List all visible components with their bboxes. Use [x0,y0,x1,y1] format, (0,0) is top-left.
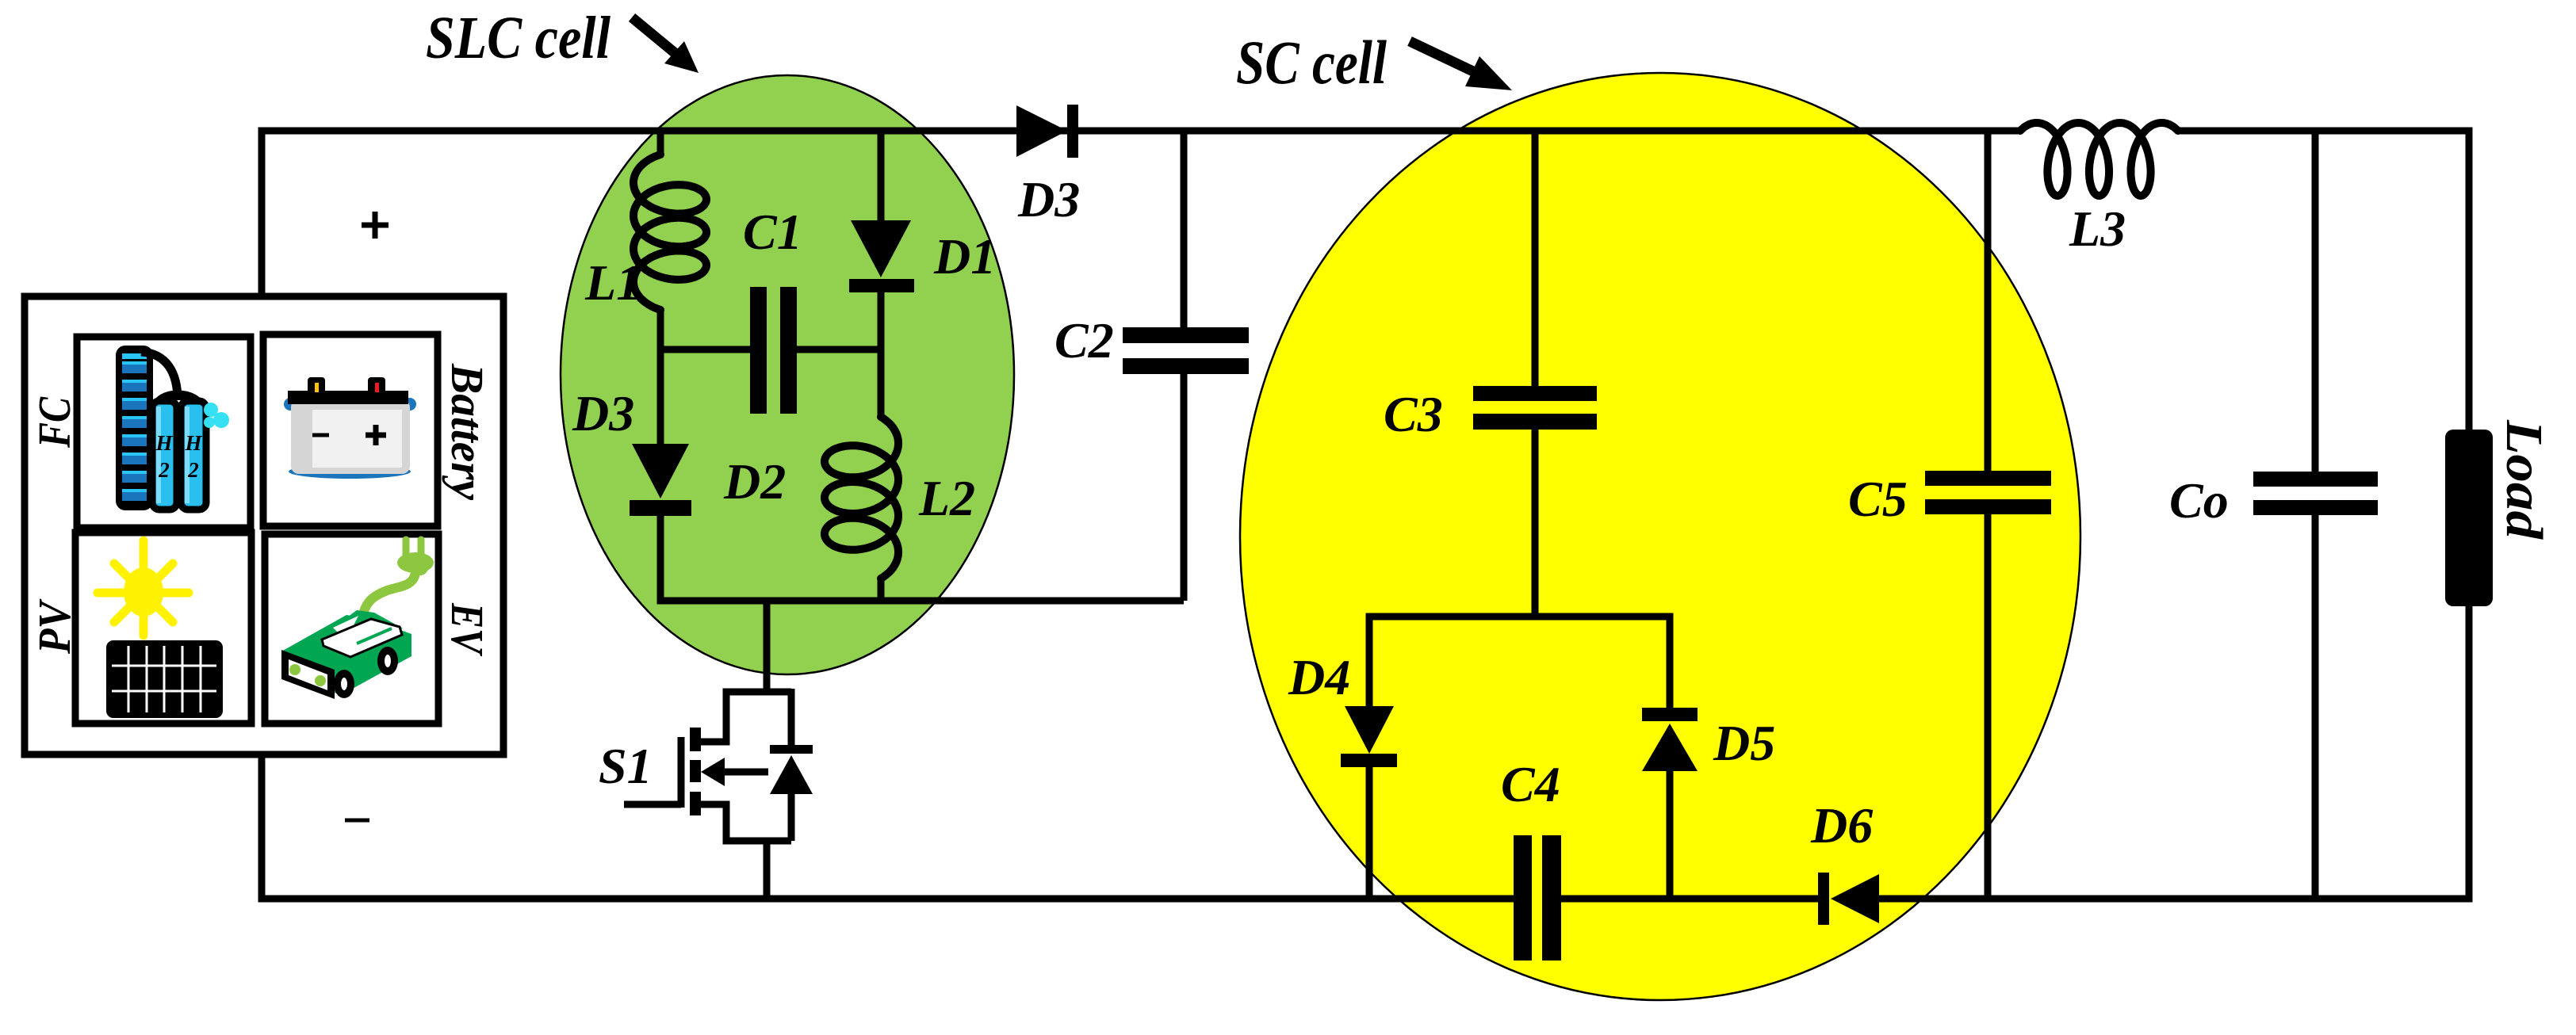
svg-text:C5: C5 [1848,471,1908,527]
diode D5 triangle (pointing up) [1642,724,1698,771]
FC icon: cyan exhaust cloud [204,403,218,417]
capacitor C5 bottom plate [1925,499,2051,514]
capacitor C2 top plate [1123,327,1249,343]
wire: S1 drain from green cell bottom node [764,601,771,692]
wire: D4 cathode to bottom rail [1366,767,1373,899]
capacitor C4 left plate (series in bottom rail) [1514,835,1532,961]
EV icon: plug body [397,552,434,573]
capacitor C4 right plate [1542,835,1561,961]
PV icon: panel grid lines [112,646,216,712]
svg-text:2: 2 [158,458,170,482]
EV icon: headlights [289,664,300,675]
svg-text:SLC cell: SLC cell [426,5,611,71]
diode D2 triangle (left branch, pointing down) [632,444,689,498]
transistor S1 channel bar top [690,728,701,751]
diode D1 triangle (right branch, pointing down) [851,220,911,277]
wire: L2 bottom stub to green-cell bottom wire [878,577,885,601]
transistor S1 source jog + left vertical + bottom line [699,804,791,841]
EV quadrant box [265,534,438,724]
FC icon: fuel-cell stack [116,346,153,510]
svg-text:EV: EV [442,602,493,656]
capacitor C3 top plate [1473,386,1597,401]
transistor S1 substrate arrow line [718,769,768,776]
wire: D1 anode stub from rail [878,131,885,222]
Battery icon: inner panel [312,410,402,468]
wire: S1 body-diode branch top [788,689,795,745]
wire: C1 right lead [797,346,881,353]
svg-text:2: 2 [187,458,199,482]
wire: C3 top lead from rail [1532,131,1539,388]
transistor S1 channel bar bottom [690,792,701,815]
svg-text:FC: FC [29,396,80,449]
transistor S1 MOSFET body: top/left/channel-jog lines [699,692,791,742]
Battery quadrant box [263,334,438,526]
inductor L1 [633,155,706,310]
Battery icon: positive terminal [368,377,385,394]
PV icon: sun disk [124,567,163,617]
FC icon: tank handles [155,395,201,409]
Battery icon: top black band [288,391,408,404]
wire: C1 left lead [660,346,750,353]
EV icon: charging cable [362,571,415,618]
capacitor C2 bottom plate [1123,358,1249,374]
capacitor Co top plate [2253,472,2378,487]
EV icon: windshield band [322,619,402,657]
wire: SC cell horizontal bus D4-D5 [1369,617,1670,620]
wire: D4 anode lead [1366,617,1373,708]
node: + polarity mark (source positive) [362,212,389,239]
svg-text:L2: L2 [918,470,975,526]
EV icon: rear wheel [377,647,398,675]
SLC cell pointer arrow [632,17,678,55]
wire: C2 bottom lead to green-cell bottom wire [1181,372,1188,601]
EV icon: car body [281,615,411,695]
wire: C5 bottom lead to bottom rail [1985,514,1992,899]
FC icon: hydrogen tube from stack to tanks [141,352,178,400]
diode D4 cathode bar [1341,754,1397,767]
inductor L3 [2020,123,2178,196]
wire: S1 source to bottom rail [764,841,771,899]
EV icon: bumper white inset [289,659,327,690]
wire: Co bottom lead to bottom rail [2312,515,2319,899]
diode D4 triangle (pointing down) [1345,706,1394,754]
source box outer frame [25,296,503,754]
wire: C5 top lead from rail [1985,131,1992,472]
diode D6 cathode bar (series in bottom rail) [1818,873,1829,925]
svg-text:L1: L1 [584,254,641,311]
resistor Load (filled rectangle on right wire) [2445,430,2493,606]
diode D1 cathode bar [849,279,914,292]
FC quadrant box [77,337,251,528]
diode D5 cathode bar [1642,708,1698,721]
wire: top rail right of L3 + right wire + bottom rail to D6 anode [1879,131,2469,899]
Battery icon: blue corner dots [284,398,297,411]
inductor L2 [825,417,898,579]
svg-text:SC cell: SC cell [1236,28,1387,97]
yellow SC cell highlight ellipse [1240,73,2080,1000]
svg-text:C4: C4 [1501,756,1560,812]
Battery icon: plus mark [366,425,386,445]
EV icon: windshield green stripe [357,628,392,644]
svg-text:Load: Load [2495,419,2553,540]
svg-text:Battery: Battery [442,363,493,500]
wire: bottom rail between D6 cathode and C4 right plate [1561,896,1824,903]
wire: L1 top stub from rail [657,131,664,156]
svg-text:D6: D6 [1810,797,1873,854]
green SLC cell highlight ellipse [561,75,1014,674]
wire: Co top lead from rail [2312,131,2319,473]
capacitor C5 top plate [1925,471,2051,486]
PV icon: solar panel [106,640,223,718]
EV icon: plug prongs [406,540,421,555]
SC cell pointer arrow [1410,41,1475,72]
svg-text:D3: D3 [1017,171,1080,227]
EV icon: car roof block [327,610,403,641]
wire: C3 bottom lead [1532,430,1539,617]
svg-text:H: H [184,431,202,455]
svg-text:D5: D5 [1713,715,1775,771]
S1 body diode triangle (pointing up) [770,755,813,794]
PV quadrant box [75,533,251,724]
wire: D5 cathode lead from bus [1667,617,1674,708]
wire: bottom rail left of C4 + left wire below source box [262,751,1514,899]
diode D6 triangle (pointing left) [1831,874,1879,923]
EV icon: front wheel [334,670,354,698]
wire: left wire top segment + top rail (to L3) [262,131,2020,300]
wire: D2 cathode down + green-cell bottom wire to C2 [660,516,1184,601]
S1 body diode cathode bar [770,745,813,754]
svg-text:PV: PV [29,598,80,655]
svg-text:D4: D4 [1288,649,1350,705]
Battery icon: negative terminal [308,377,325,394]
capacitor C1 left plate [750,287,767,414]
svg-text:Co: Co [2169,472,2229,529]
transistor S1 substrate arrow head (pointing left) [701,758,725,786]
svg-text:C3: C3 [1384,386,1443,442]
FC icon: H2 tank 2 [181,401,206,510]
wire: D5 anode to bottom rail [1667,770,1674,899]
svg-text:D1: D1 [933,228,996,285]
Battery icon: minus mark [312,433,329,437]
diode D3 cathode bar [1067,105,1078,158]
wire: left branch L1 bottom to D2 anode (through C1 node) [657,308,664,445]
Battery icon: blue base ellipse [289,464,411,479]
transistor S1 channel bar middle [690,760,701,782]
capacitor C3 bottom plate [1473,414,1597,430]
EV icon: roof highlight stripe [333,616,358,632]
capacitor C1 right plate [780,287,797,414]
svg-text:H: H [155,431,173,455]
capacitor Co bottom plate [2253,500,2378,515]
svg-text:C1: C1 [743,204,802,260]
FC icon: H2 tank 1 [152,401,177,510]
PV icon: sun rays [98,540,189,636]
transistor S1 gate electrode line [678,737,685,808]
FC icon: tank highlights [156,407,161,503]
wire: S1 gate lead [624,801,681,808]
node: - polarity mark (source negative) [345,819,369,823]
svg-text:C2: C2 [1055,312,1114,369]
svg-text:S1: S1 [599,738,653,794]
wire: D1 cathode to L2 top [878,292,885,418]
wire: C2 top lead from rail [1181,131,1188,329]
svg-text:D3: D3 [572,385,634,441]
svg-text:D2: D2 [723,453,786,510]
diode D2 cathode bar [630,500,691,516]
wire: S1 body-diode branch bottom [788,792,795,841]
diode D3 triangle (top rail, pointing right) [1016,105,1067,157]
svg-text:L3: L3 [2069,201,2126,257]
Battery icon: body [291,399,410,474]
EV icon: front bumper panel [281,650,335,699]
